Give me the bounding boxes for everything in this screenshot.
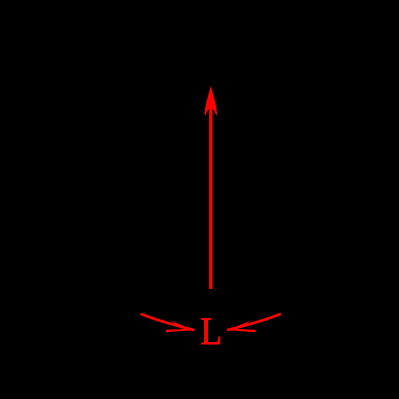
right leader line [228,314,279,330]
svg-text:L: L [200,310,222,353]
left leader arrowhead [166,320,195,332]
right leader arrowhead [227,320,256,332]
vertical force arrow shaft [209,104,212,289]
left leader line [142,314,194,330]
vertical force arrowhead [205,86,218,116]
